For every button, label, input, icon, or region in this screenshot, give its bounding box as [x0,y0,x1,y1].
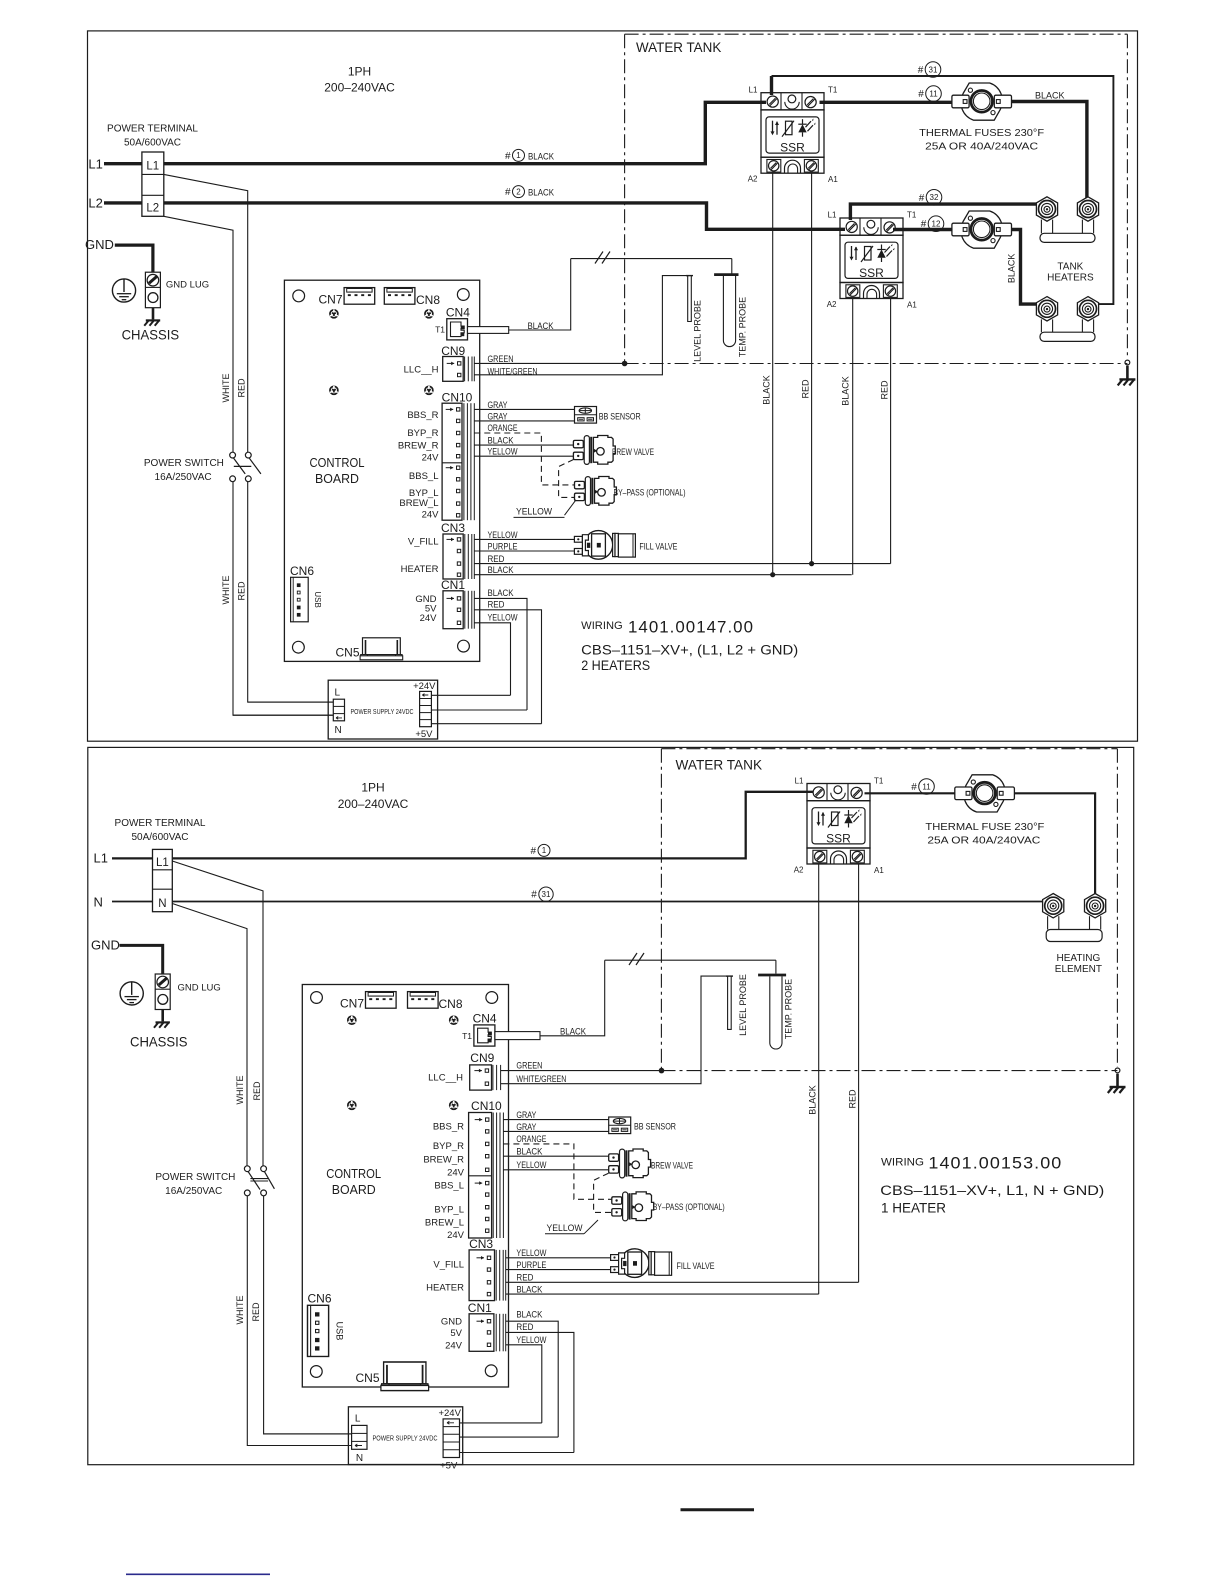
wire label #31 [918,62,941,78]
wire WHITE/GREEN to level probe (bottom) [501,976,728,1084]
board mounting hole bottom-left [293,641,305,653]
thermal fuse F3 [955,775,1015,812]
svg-text:THERMAL FUSE 230°F: THERMAL FUSE 230°F [925,821,1044,833]
board screw mid-right [424,386,434,396]
SSR3 terminal labels [794,776,885,875]
wire N terminal to power switch (white, bottom) [172,904,247,1166]
svg-text:YELLOW: YELLOW [516,507,552,518]
svg-text:HEATER: HEATER [426,1282,464,1293]
svg-text:WHITE: WHITE [235,1296,245,1325]
chassis ground rake [144,320,160,325]
heating element label [1055,953,1102,975]
wire RED CN1 to power supply (bottom) [506,1332,574,1452]
connector CN3 (fill valve / heater, bottom) [469,1250,494,1301]
brew valve V1 (bottom) [609,1149,651,1178]
wire BLACK to brew valve (bottom) [503,1155,608,1157]
wire RED CN1 to power supply [474,610,541,724]
svg-text:V_FILL: V_FILL [433,1260,464,1271]
tank heater terminal 2L [1036,297,1057,321]
svg-text:+5V: +5V [440,1461,458,1472]
wire RED to SSR A1 pins [474,563,890,565]
svg-text:GND LUG: GND LUG [178,982,221,993]
fill valve V3 [574,531,635,560]
wire L2 feed [104,201,142,204]
wire label #11 (bottom) [911,779,934,795]
wire power supply L feed [248,701,334,703]
svg-text:YELLOW: YELLOW [516,1335,546,1345]
svg-text:31: 31 [929,65,938,74]
connector CN5 (bottom) [381,1362,429,1391]
supply phase label 1PH 200-240VAC (bottom) [338,781,409,812]
svg-text:CN8: CN8 [416,293,440,307]
wire SSR3 A2 to CN3 black (bottom) [818,864,820,1294]
svg-text:CN9: CN9 [470,1051,494,1065]
svg-text:5V: 5V [450,1328,462,1339]
wire temp probe feed with break [571,258,732,260]
svg-text:BOARD: BOARD [332,1182,376,1197]
svg-text:A1: A1 [828,175,838,184]
wire temp probe drop [731,259,733,274]
svg-text:L2: L2 [88,196,102,211]
svg-text:N: N [94,894,103,909]
svg-text:24V: 24V [447,1230,465,1241]
wire ORANGE to by-pass (dashed) [474,433,574,485]
heating element terminal R [1085,894,1106,918]
wire GREEN to water tank (bottom) [501,1070,662,1072]
svg-text:BYP_R: BYP_R [433,1141,464,1152]
svg-text:1: 1 [516,151,521,160]
top diagram frame [88,31,1138,741]
level probe [686,276,693,322]
svg-text:THERMAL FUSES 230°F: THERMAL FUSES 230°F [919,127,1044,139]
wire switch to power supply L (red, bottom) [264,1196,352,1434]
svg-text:A2: A2 [794,865,804,874]
svg-text:L1: L1 [795,776,804,785]
svg-text:BOARD: BOARD [315,471,359,486]
bottom diagram frame [88,747,1134,1464]
wire RED to SSR A1 (bottom) [506,1281,859,1283]
svg-text:#: # [919,193,925,204]
ground lug (bottom) [155,974,170,1010]
svg-text:HEATING: HEATING [1057,953,1101,964]
svg-text:CN6: CN6 [290,564,314,578]
svg-text:50A/600VAC: 50A/600VAC [124,138,181,149]
svg-text:A1: A1 [874,866,884,875]
svg-text:CN1: CN1 [468,1301,492,1315]
svg-text:1PH: 1PH [348,65,371,79]
tank heater terminal 1L [1036,197,1057,221]
svg-text:GND: GND [85,237,114,252]
svg-text:WHITE: WHITE [221,576,231,605]
tank heaters label [1047,262,1094,284]
svg-text:BREW_L: BREW_L [399,498,438,509]
board screw top-right (bottom) [449,1015,459,1025]
wire #12 SSR2 T1 to thermal fuse F2 [893,228,952,231]
svg-text:11: 11 [929,89,938,98]
svg-text:2 HEATERS: 2 HEATERS [581,658,650,673]
board mounting hole top-right (bottom) [486,992,498,1004]
thermal fuse F1 [952,83,1012,120]
svg-text:N: N [158,898,166,910]
wire F3 to heating element R [1014,793,1095,894]
tank chassis ground rake (bottom) [1108,1087,1126,1093]
svg-text:GRAY: GRAY [516,1122,536,1132]
wire SSR2 A1 to CN3 red [890,299,892,564]
chassis ground stem [152,308,155,320]
wire BLACK to SSR A2 pins [474,574,851,576]
earth symbol (bottom) [120,982,143,1005]
svg-text:GND: GND [91,938,120,953]
svg-text:YELLOW: YELLOW [488,447,518,457]
board mounting hole top-left [293,290,305,302]
wire L1 terminal to power switch (red) [164,174,248,452]
SSR2 terminal labels [827,211,918,310]
svg-text:1: 1 [542,846,547,855]
connector CN9 (LLC_H level probe) [443,357,464,382]
svg-text:2: 2 [516,187,521,196]
wire PURPLE to fill valve [474,550,574,552]
svg-text:BLACK: BLACK [516,1310,542,1320]
wire BLACK CN1 to power supply [474,598,527,710]
wire label #11 [918,86,941,102]
svg-text:POWER SWITCH: POWER SWITCH [144,458,224,469]
power supply PS1 (bottom) [348,1407,462,1472]
svg-text:200–240VAC: 200–240VAC [338,797,409,811]
fill valve V3 (bottom) [611,1249,672,1278]
connector CN5 [360,638,403,660]
tank ground terminal (bottom) [1115,1068,1120,1086]
junction dot black wire / SSR1 A2 [770,572,775,577]
tank heater terminal 1R [1077,197,1098,221]
wire power supply +24V out (bottom) [460,1422,542,1424]
svg-text:YELLOW: YELLOW [516,1160,546,1170]
svg-text:+5V: +5V [415,729,433,740]
svg-text:BBS_R: BBS_R [407,410,438,421]
wire label #2 BLACK [505,186,554,199]
svg-text:#: # [505,187,511,198]
svg-text:#: # [918,65,924,76]
svg-text:CN4: CN4 [473,1012,497,1026]
svg-text:BLACK: BLACK [516,1146,542,1156]
wire switch to power supply L (red) [248,482,334,702]
svg-text:200–240VAC: 200–240VAC [324,81,395,95]
svg-text:#: # [505,151,511,162]
wire BLACK to SSR A2 (bottom) [506,1293,819,1295]
power terminal label [107,124,198,149]
svg-text:25A OR 40A/240VAC: 25A OR 40A/240VAC [925,140,1038,152]
svg-text:#: # [911,782,917,793]
wire SSR2 A2 to CN3 black [852,299,854,575]
connector CN9 (LLC_H, bottom) [470,1065,492,1090]
svg-text:GRAY: GRAY [516,1110,536,1120]
tank ground terminal [1125,360,1130,379]
wire label #32 [919,190,942,206]
page footer rule [681,1508,755,1511]
svg-text:BB SENSOR: BB SENSOR [634,1122,676,1132]
svg-text:L1: L1 [156,857,169,869]
wire power supply +5V out [431,723,541,725]
wiring number block (top) [581,618,798,673]
svg-text:BBS_R: BBS_R [433,1122,464,1133]
svg-text:TANK: TANK [1057,262,1083,273]
wire YELLOW CN1 to power supply [474,623,510,696]
yellow jumper note (bottom) [545,1220,598,1234]
wire YELLOW jumper brew to by-pass (dashed) [559,460,575,498]
bb sensor BB1 (bottom) [609,1117,631,1134]
svg-text:50A/600VAC: 50A/600VAC [131,832,188,843]
svg-text:CBS–1151–XV+, L1, N + GND: CBS–1151–XV+, L1, N + GND) [880,1183,1104,1198]
wire YELLOW to fill valve (bottom) [506,1257,611,1259]
svg-text:L: L [355,1413,361,1424]
junction dot red wire / SSR1 A1 [809,561,814,566]
svg-text:T1: T1 [907,211,917,220]
svg-text:T1: T1 [462,1031,472,1041]
svg-text:A1: A1 [907,301,917,310]
power terminal block TB1 (L1/L2) [142,152,164,216]
svg-text:CONTROL: CONTROL [310,455,365,470]
svg-text:GREEN: GREEN [488,354,514,364]
svg-text:LEVEL PROBE: LEVEL PROBE [738,974,748,1036]
wire #32 SSR2 to tank heater 1L [850,198,1047,220]
svg-text:1PH: 1PH [361,781,384,795]
svg-text:YELLOW: YELLOW [488,530,518,540]
water tank enclosure (dash-dot boundary, bottom diagram) [661,749,1117,1071]
svg-text:L1: L1 [828,211,837,220]
svg-text:RED: RED [252,1081,262,1101]
wire CN4 T1 black to temp probe [509,259,571,330]
svg-text:RED: RED [488,600,505,610]
svg-text:+24V: +24V [438,1408,461,1419]
svg-text:A2: A2 [827,300,837,309]
svg-text:GND LUG: GND LUG [166,280,209,291]
svg-text:RED: RED [800,379,810,399]
by-pass valve V2 [575,477,617,506]
svg-text:WATER TANK: WATER TANK [676,757,763,773]
solid state relay SSR3 [807,784,870,865]
wire break symbol (bottom) [629,953,644,965]
wire switch to power supply N (white, bottom) [247,1196,351,1446]
svg-text:31: 31 [542,890,551,899]
wire switch to power supply N (white) [233,482,333,715]
svg-text:YELLOW: YELLOW [547,1223,583,1234]
svg-text:RED: RED [251,1302,261,1322]
svg-text:16A/250VAC: 16A/250VAC [155,472,212,483]
wire L1 terminal to power switch (red, bottom) [172,861,263,1166]
wire power supply L feed (bottom) [264,1433,352,1435]
svg-text:CN7: CN7 [340,997,364,1011]
svg-text:L1: L1 [146,161,159,173]
svg-text:V_FILL: V_FILL [408,537,439,548]
svg-text:WIRING: WIRING [881,1156,924,1168]
svg-text:RED: RED [488,554,505,564]
svg-text:PURPLE: PURPLE [488,541,518,551]
by-pass valve V2 (bottom) [612,1192,654,1221]
svg-text:#: # [531,890,537,901]
svg-text:BY–PASS (OPTIONAL): BY–PASS (OPTIONAL) [653,1202,725,1212]
connector CN1 (power input, bottom) [469,1314,494,1352]
svg-text:11: 11 [922,782,931,791]
board screw mid-left [329,386,339,396]
svg-text:CN4: CN4 [446,305,470,319]
wire L2 to SSR2 (#2 BLACK) [164,203,845,229]
svg-text:WATER TANK: WATER TANK [636,39,722,55]
wire YELLOW CN1 to power supply (bottom) [506,1345,542,1423]
svg-text:POWER SUPPLY 24VDC: POWER SUPPLY 24VDC [373,1435,438,1442]
svg-text:ELEMENT: ELEMENT [1055,964,1102,975]
connector CN10 (valve outputs, bottom) [469,1113,504,1239]
svg-text:RED: RED [879,380,889,400]
svg-text:GRAY: GRAY [488,411,508,421]
wire ORANGE to by-pass (dashed, bottom) [503,1144,611,1199]
wire YELLOW jumper brew to by-pass (dashed, bottom) [594,1173,612,1212]
svg-text:WHITE: WHITE [221,374,231,403]
control board label (bottom) [326,1166,381,1197]
wire N feed (bottom) [112,901,153,903]
svg-text:BREW_R: BREW_R [398,440,439,451]
ground lug [145,272,160,308]
svg-text:CN10: CN10 [442,391,473,405]
connector CN10 (valve outputs) [442,403,474,520]
svg-text:POWER SUPPLY 24VDC: POWER SUPPLY 24VDC [351,709,414,716]
wire L1 feed [104,162,142,165]
svg-text:CBS–1151–XV+, (L1, L2 + GN: CBS–1151–XV+, (L1, L2 + GND) [581,643,798,658]
wire SSR1 A1 to CN3 red [811,173,813,563]
svg-text:#: # [921,219,927,230]
connector CN6 USB (bottom) [308,1305,346,1356]
svg-text:BLACK: BLACK [528,188,554,198]
svg-text:T1: T1 [435,324,445,334]
svg-text:TEMP. PROBE: TEMP. PROBE [738,297,748,357]
wire power supply N feed (bottom) [247,1445,351,1447]
junction dot water tank / green wire [622,361,628,367]
wire SSR3 A1 to CN3 red (bottom) [858,864,860,1282]
heating element base [1046,916,1102,941]
svg-text:BLACK: BLACK [761,375,771,405]
svg-text:CN3: CN3 [469,1237,493,1251]
earth symbol [112,279,135,302]
svg-text:LEVEL PROBE: LEVEL PROBE [693,300,703,362]
svg-text:WHITE: WHITE [235,1076,245,1105]
svg-text:24V: 24V [420,613,438,624]
svg-text:CONTROL: CONTROL [326,1166,381,1181]
board mounting hole bottom-right [458,640,470,652]
svg-text:CN5: CN5 [355,1371,379,1385]
connector CN4 (T1 temp probe input, bottom) [474,1025,495,1046]
wire power supply +24V out [431,694,510,696]
connector CN3 (fill valve / heater) [443,534,463,579]
svg-text:BLACK: BLACK [1035,90,1065,100]
power switch S1 (DPST, bottom) [244,1166,274,1196]
wire GND to lug (bottom) [120,945,163,974]
board screw top-right [424,309,434,319]
svg-text:L: L [335,688,341,699]
wire L1 to SSR3 (#1) [172,792,813,859]
wire BLACK CN1 to power supply (bottom) [506,1321,559,1437]
svg-text:L1: L1 [749,86,758,95]
wire power supply N feed [233,714,333,716]
svg-text:N: N [335,725,342,736]
svg-text:CHASSIS: CHASSIS [122,327,180,343]
svg-text:#: # [918,89,924,100]
svg-text:POWER TERMINAL: POWER TERMINAL [115,818,206,829]
svg-text:BLACK: BLACK [488,588,514,598]
SSR1 terminal labels [748,86,839,185]
temp probe (bottom) [758,975,786,1049]
svg-text:SSR: SSR [780,141,805,155]
wire label #1 BLACK [505,149,554,162]
svg-text:BREW_R: BREW_R [423,1155,464,1166]
svg-text:USB: USB [313,591,322,607]
level probe (bottom) [726,976,733,1029]
thermal fuse F2 [952,211,1012,248]
svg-text:CN5: CN5 [335,645,359,659]
svg-text:GREEN: GREEN [516,1061,542,1071]
board screw mid-left (bottom) [347,1101,357,1111]
svg-text:BLACK: BLACK [488,565,514,575]
power supply PS1 [328,680,437,740]
svg-text:T1: T1 [828,86,838,95]
wire YELLOW to brew valve [474,455,573,457]
board mounting hole bottom-right (bottom) [485,1365,497,1377]
svg-text:25A OR 40A/240VAC: 25A OR 40A/240VAC [927,834,1040,846]
control board label [310,455,365,486]
svg-text:L1: L1 [94,851,108,866]
power terminal block TB1 (L1/N) [153,849,173,911]
wire power supply +5V out (bottom) [460,1452,574,1454]
svg-text:24V: 24V [422,510,440,521]
wire GREEN to water tank [474,362,624,364]
svg-text:POWER SWITCH: POWER SWITCH [155,1172,235,1183]
svg-text:FILL VALVE: FILL VALVE [639,541,677,551]
svg-text:L2: L2 [146,203,159,215]
connector CN1 (power input) [443,591,463,629]
svg-text:FILL VALVE: FILL VALVE [677,1261,715,1271]
svg-text:SSR: SSR [859,266,884,280]
tank chassis ground rake [1118,379,1136,385]
wire F1 to tank heater 1R (BLACK) [1011,102,1087,199]
wire YELLOW to brew valve (bottom) [503,1169,608,1171]
connector CN7 (bottom) [366,992,397,1009]
svg-text:24V: 24V [422,453,440,464]
svg-text:BLACK: BLACK [516,1284,542,1294]
footer link rule [126,1573,270,1575]
svg-text:HEATERS: HEATERS [1047,272,1094,283]
svg-text:32: 32 [930,193,939,202]
wire label #12 [921,216,944,232]
board screw top-left [329,309,339,319]
power switch S1 (DPST) [230,452,261,481]
svg-text:RED: RED [236,581,246,601]
connector CN8 [384,288,415,305]
tank heater terminal 2R [1077,297,1098,321]
svg-text:LLC__H: LLC__H [404,364,439,375]
svg-text:USB: USB [335,1321,346,1340]
wire label #31 (bottom) [531,887,553,901]
board screw top-left (bottom) [347,1015,357,1025]
wire L2 terminal to power switch (white) [164,216,233,452]
wire power supply GND out (bottom) [460,1436,559,1438]
svg-text:BLACK: BLACK [528,321,554,331]
bb sensor BB1 [575,407,597,424]
wire L1 feed (bottom) [112,857,153,859]
board mounting hole bottom-left (bottom) [310,1366,322,1378]
svg-text:CHASSIS: CHASSIS [130,1034,188,1050]
svg-text:RED: RED [236,378,246,398]
connector CN8 (bottom) [408,992,439,1009]
svg-text:BLACK: BLACK [560,1026,586,1036]
wire N to heating element (#31) [172,901,1053,903]
svg-text:BREW VALVE: BREW VALVE [651,1160,693,1170]
